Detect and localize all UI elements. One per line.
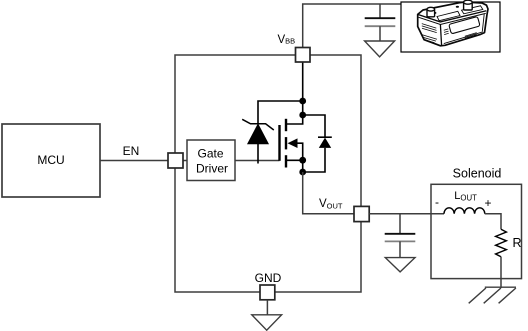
wire drain: VBB terminal down to MOSFET drain node [302, 62, 304, 115]
svg-text:Solenoid: Solenoid [453, 166, 502, 180]
MCU box U2 [2, 124, 100, 197]
wire VOUT to solenoid [369, 213, 444, 215]
junction dot drain-diode [299, 112, 306, 119]
svg-text:+: + [485, 196, 492, 210]
terminal pin VOUT [354, 206, 369, 221]
IC boundary box U1 [175, 55, 361, 292]
terminal pin GND [260, 285, 275, 300]
wire inductor to resistor [485, 214, 501, 230]
resistor R [496, 229, 507, 256]
svg-text:MCU: MCU [37, 153, 64, 167]
battery (car battery clipart) [418, 0, 488, 46]
junction dot source-body [299, 157, 306, 164]
wire source: MOSFET source node down [302, 160, 304, 172]
wire VOUT: source node to VOUT terminal [303, 172, 354, 214]
Gate Driver block [187, 140, 235, 181]
zener diode D1 (gate clamp TVS) [242, 101, 303, 164]
solenoid box [431, 184, 522, 278]
battery frame [401, 2, 500, 52]
inductor LOUT [444, 208, 485, 214]
wire EN: MCU to EN terminal [100, 160, 187, 162]
earth ground symbol (solenoid return) [469, 287, 516, 303]
ground symbol (C2) [385, 258, 415, 272]
svg-text:Driver: Driver [196, 162, 228, 176]
svg-text:VBB: VBB [278, 34, 296, 46]
terminal pin EN [168, 153, 183, 168]
junction dot drain-zener [299, 98, 306, 105]
svg-text:EN: EN [123, 144, 140, 158]
capacitor C2 (VOUT cap) [385, 214, 416, 258]
wire resistor to earth ground [500, 257, 502, 288]
junction dot source-diode [299, 169, 306, 176]
ground symbol (C1) [365, 41, 395, 57]
svg-text:Gate: Gate [197, 146, 223, 160]
svg-text:-: - [435, 195, 439, 209]
wire GND terminal to ground [266, 300, 268, 315]
svg-text:GND: GND [255, 271, 282, 285]
capacitor C1 (VBB bulk cap) [365, 4, 396, 41]
terminal pin VBB [296, 48, 311, 63]
svg-text:R: R [513, 236, 522, 250]
wire gate: Gate Driver output to MOSFET gate [235, 160, 280, 162]
ground symbol (GND pin) [252, 315, 282, 330]
body diode D2 [303, 115, 332, 172]
wire VBB: terminal up and over to battery [303, 4, 401, 48]
MOSFET Q1 (N-channel) [280, 115, 303, 168]
